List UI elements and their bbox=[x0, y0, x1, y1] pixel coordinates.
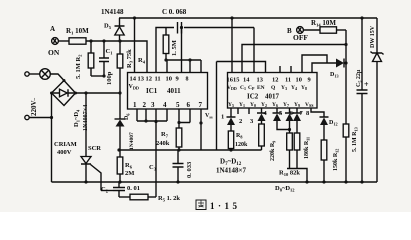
svg-text:+: + bbox=[364, 80, 369, 89]
wire: IC2 pin9 to D13 bbox=[312, 63, 336, 73]
svg-text:3: 3 bbox=[151, 101, 155, 109]
op-amp U1: IC1 4011 body bbox=[128, 73, 208, 110]
diode D5 1N4148 bbox=[101, 8, 125, 41]
svg-text:Vss: Vss bbox=[205, 113, 213, 120]
wire: reset net y45 to IC2 pin15 bbox=[242, 45, 346, 73]
resistor R6 2M bbox=[117, 157, 134, 184]
wire: R2/C1 bottom net bbox=[91, 74, 106, 77]
label: D1~D4 1N4007x4 bbox=[73, 105, 89, 131]
svg-text:ON: ON bbox=[48, 48, 60, 57]
svg-text:8: 8 bbox=[306, 110, 310, 117]
terminal: AC input top bbox=[25, 72, 40, 76]
svg-text:DW 15V: DW 15V bbox=[370, 25, 376, 48]
lamp bbox=[40, 69, 64, 81]
wire: IC2 pin12, pin11 stubs bbox=[280, 66, 291, 73]
svg-text:14: 14 bbox=[243, 77, 250, 84]
svg-text:12: 12 bbox=[272, 77, 278, 84]
label: CRIAM 400V bbox=[54, 141, 77, 156]
wire: Vss riser left of IC2 bbox=[217, 62, 266, 151]
wire: IC2 pin2 pin3 stubs bbox=[238, 108, 249, 114]
svg-text:C 0. 068: C 0. 068 bbox=[162, 8, 187, 16]
svg-text:Y6: Y6 bbox=[272, 102, 278, 108]
terminal: AC input bottom bbox=[25, 115, 53, 119]
resistor R1 10M bbox=[58, 27, 89, 44]
thyristor SCR bbox=[81, 145, 101, 191]
svg-text:1N4148×7: 1N4148×7 bbox=[216, 167, 247, 175]
capacitor C 0.068 bbox=[162, 8, 187, 34]
caption 图1-15 bbox=[196, 200, 238, 211]
resistor R2 5.1M bbox=[75, 41, 94, 79]
svg-text:C5 22μ: C5 22μ bbox=[356, 69, 363, 87]
svg-text:1N4007: 1N4007 bbox=[129, 132, 135, 150]
resistor R5 1.2k bbox=[119, 194, 180, 202]
svg-text:5. 1M R2: 5. 1M R2 bbox=[75, 54, 83, 79]
svg-text:1: 1 bbox=[133, 101, 137, 109]
svg-text:R10 82k: R10 82k bbox=[279, 170, 300, 178]
resistor R11 180k bbox=[294, 133, 310, 169]
wire: bridge + output riser bbox=[76, 92, 121, 94]
capacitor C1 100p bbox=[99, 41, 113, 85]
touch plate B bbox=[287, 27, 308, 42]
svg-text:A: A bbox=[50, 25, 55, 33]
diode D11 bbox=[293, 108, 302, 133]
svg-text:15: 15 bbox=[233, 77, 239, 84]
svg-text:13: 13 bbox=[138, 76, 145, 83]
resistor R13 5.1M bbox=[343, 124, 358, 184]
svg-text:D12: D12 bbox=[329, 120, 338, 127]
svg-text:0. 033: 0. 033 bbox=[186, 161, 193, 178]
bridge rectifier D1~D4 bbox=[50, 79, 77, 106]
svg-text:Y8: Y8 bbox=[301, 85, 307, 91]
svg-text:100p: 100p bbox=[106, 71, 113, 85]
svg-text:C1: C1 bbox=[106, 48, 114, 56]
svg-text:1. 5M: 1. 5M bbox=[171, 40, 178, 56]
wire: mid ground rail bbox=[117, 148, 261, 151]
svg-text:VDD: VDD bbox=[129, 84, 139, 91]
diode D8 bbox=[257, 108, 266, 127]
wire: IC1 pin14 riser from +V bbox=[134, 18, 136, 73]
wire: IC2 pin14 riser bbox=[253, 28, 255, 73]
svg-text:IC1: IC1 bbox=[146, 87, 158, 95]
svg-text:1: 1 bbox=[221, 114, 224, 121]
wire: touch input net to IC1 bbox=[86, 39, 135, 42]
svg-text:VSS: VSS bbox=[305, 102, 314, 108]
svg-text:D13: D13 bbox=[330, 72, 339, 79]
svg-text:4011: 4011 bbox=[167, 87, 181, 95]
svg-text:Y3: Y3 bbox=[281, 85, 287, 91]
svg-text:Q: Q bbox=[271, 85, 276, 91]
svg-text:13: 13 bbox=[257, 77, 263, 84]
svg-text:2M: 2M bbox=[125, 170, 134, 177]
wire: R4 bottom to IC1 pins 11,9,8 bbox=[164, 58, 201, 72]
svg-text:4017: 4017 bbox=[265, 93, 280, 101]
pin labels under IC2 bbox=[221, 110, 310, 125]
wire: IC2 pin16 riser bbox=[231, 18, 233, 73]
svg-text:Y0: Y0 bbox=[250, 102, 256, 108]
svg-text:Y2: Y2 bbox=[261, 102, 267, 108]
svg-text:R6: R6 bbox=[125, 162, 133, 170]
svg-text:9: 9 bbox=[308, 77, 311, 84]
svg-text:SCR: SCR bbox=[88, 145, 101, 152]
diode D9 bbox=[273, 108, 292, 131]
svg-text:2: 2 bbox=[239, 118, 242, 125]
svg-text:12: 12 bbox=[146, 76, 153, 83]
svg-text:R4: R4 bbox=[138, 57, 146, 65]
svg-text:2: 2 bbox=[143, 101, 147, 109]
capacitor C2 0.01 bbox=[101, 182, 140, 197]
svg-text:VDD: VDD bbox=[227, 85, 237, 91]
svg-text:R7: R7 bbox=[161, 131, 169, 139]
svg-text:C2: C2 bbox=[101, 186, 109, 194]
resistor R14 10M bbox=[303, 19, 346, 33]
svg-text:11: 11 bbox=[155, 76, 161, 83]
svg-text:R8: R8 bbox=[236, 133, 242, 140]
resistor R10 82k bbox=[279, 133, 300, 177]
svg-text:240k: 240k bbox=[156, 140, 170, 147]
wire: IC1 pin7 to Vss rail bbox=[199, 109, 202, 150]
svg-text:1N4148: 1N4148 bbox=[101, 8, 124, 16]
svg-text:220k R9: 220k R9 bbox=[270, 141, 277, 161]
svg-text:0. 01: 0. 01 bbox=[127, 185, 140, 192]
touch plate A bbox=[48, 25, 60, 57]
svg-text:R1 10M: R1 10M bbox=[66, 27, 89, 36]
svg-text:180k R11: 180k R11 bbox=[304, 137, 311, 159]
svg-text:4: 4 bbox=[163, 101, 167, 109]
svg-text:D6: D6 bbox=[124, 114, 131, 120]
diode D10 bbox=[285, 108, 294, 133]
svg-text:220V~: 220V~ bbox=[30, 97, 38, 116]
wire: +V supply rail bbox=[119, 16, 377, 19]
wire: bridge left vertex to ground rail bbox=[51, 93, 53, 182]
resistor R4 1.5M bbox=[138, 28, 178, 65]
svg-text:D5: D5 bbox=[104, 23, 112, 31]
diode D6 1N4007 bbox=[115, 114, 136, 157]
resistor R12 150k bbox=[321, 140, 339, 184]
svg-text:3: 3 bbox=[250, 118, 254, 125]
svg-text:IC2: IC2 bbox=[247, 93, 259, 101]
svg-text:1·15: 1·15 bbox=[210, 201, 238, 211]
chip IC2 4017 body bbox=[227, 73, 318, 109]
svg-text:R14 10M: R14 10M bbox=[311, 19, 336, 28]
svg-text:Y5: Y5 bbox=[228, 102, 234, 108]
svg-text:7: 7 bbox=[199, 101, 203, 109]
svg-text:10: 10 bbox=[296, 77, 302, 84]
diode D12 bbox=[311, 108, 338, 140]
wire: bottom ground rail bbox=[52, 181, 378, 183]
capacitor C5 22u bbox=[356, 18, 369, 184]
svg-text:6: 6 bbox=[187, 101, 191, 109]
svg-text:400V: 400V bbox=[57, 149, 72, 156]
wire: SCR gate net bbox=[101, 190, 113, 192]
svg-text:5: 5 bbox=[176, 101, 180, 109]
svg-text:10: 10 bbox=[166, 76, 173, 83]
wire: IC2 pin10 loop bbox=[302, 55, 327, 73]
capacitor C3 0.033 bbox=[149, 150, 193, 184]
svg-text:EN: EN bbox=[257, 85, 265, 91]
wire: IC1 pin3 down to R5 bbox=[155, 109, 157, 197]
resistor R3 75k bbox=[117, 39, 133, 119]
svg-text:R3 75k: R3 75k bbox=[126, 49, 134, 68]
svg-text:8: 8 bbox=[186, 77, 189, 83]
svg-text:Y7: Y7 bbox=[283, 102, 289, 108]
svg-text:Y9: Y9 bbox=[294, 102, 300, 108]
svg-text:B: B bbox=[287, 27, 292, 35]
resistor R8 120k bbox=[228, 131, 248, 150]
svg-text:Y1: Y1 bbox=[239, 102, 245, 108]
svg-text:R5 1. 2k: R5 1. 2k bbox=[158, 195, 180, 203]
svg-text:C1: C1 bbox=[240, 85, 246, 91]
wire: oscillator net to IC1 pin12 bbox=[156, 26, 254, 73]
wire: bridge - output to SCR anode bbox=[85, 93, 87, 157]
svg-text:150k R12: 150k R12 bbox=[333, 149, 340, 171]
svg-text:CRIAM: CRIAM bbox=[54, 141, 77, 148]
svg-text:11: 11 bbox=[285, 77, 291, 84]
wire: C right plate to IC1 pin10 bbox=[181, 28, 183, 73]
svg-text:CP: CP bbox=[248, 85, 255, 91]
svg-text:5. 1M R13: 5. 1M R13 bbox=[352, 127, 359, 152]
resistor R9 220k bbox=[259, 124, 277, 161]
wire: R10/R11 common to ground rail bbox=[287, 169, 309, 184]
svg-text:D1~D4: D1~D4 bbox=[73, 109, 81, 127]
svg-text:D8~D12: D8~D12 bbox=[275, 185, 295, 193]
svg-text:120k: 120k bbox=[235, 142, 248, 148]
wire: IC1 pins 5,6 bracket to R7 bbox=[177, 109, 190, 124]
zener DW 15V bbox=[370, 18, 384, 182]
diode D13 bbox=[330, 59, 348, 79]
svg-text:Y4: Y4 bbox=[291, 85, 297, 91]
wire: IC1 pins 1,2,4 bracket bbox=[137, 109, 167, 123]
svg-text:OFF: OFF bbox=[293, 33, 308, 42]
resistor R7 240k bbox=[156, 123, 182, 151]
diode D7 bbox=[227, 108, 236, 131]
wire: IC1 pin13 bracket bbox=[135, 41, 148, 73]
label: D7~D12 group bbox=[216, 158, 247, 175]
svg-text:14: 14 bbox=[130, 76, 137, 83]
wire: OFF net vertical rail to R13 bbox=[344, 30, 347, 124]
